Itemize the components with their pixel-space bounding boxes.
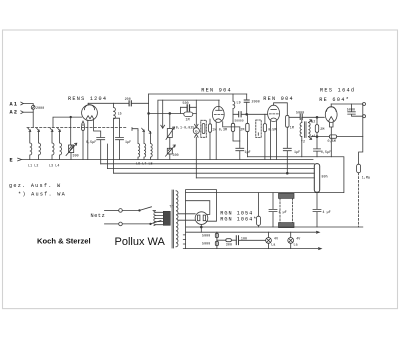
svg-text:1µF: 1µF <box>125 140 131 144</box>
svg-text:2M: 2M <box>240 128 244 132</box>
svg-text:5000: 5000 <box>296 110 304 114</box>
svg-text:2M: 2M <box>320 127 324 131</box>
svg-text:50000: 50000 <box>235 120 244 123</box>
svg-text:0,5M: 0,5M <box>328 139 336 143</box>
svg-text:5000: 5000 <box>347 107 355 111</box>
svg-text:gez. Ausf. W: gez. Ausf. W <box>9 183 61 189</box>
svg-text:4V: 4V <box>296 237 300 241</box>
svg-text:L6 L7 L8: L6 L7 L8 <box>136 162 153 166</box>
svg-text:4V: 4V <box>274 237 278 241</box>
svg-text:T2: T2 <box>301 140 305 144</box>
svg-text:L9: L9 <box>237 100 241 104</box>
svg-text:0,3M: 0,3M <box>219 128 227 132</box>
svg-text:1M: 1M <box>186 117 190 121</box>
svg-text:Koch & Sterzel: Koch & Sterzel <box>37 236 91 245</box>
svg-text:300: 300 <box>73 153 79 157</box>
svg-text:REN 904: REN 904 <box>263 96 294 102</box>
svg-text:L5: L5 <box>118 112 122 116</box>
svg-text:La: La <box>271 243 275 247</box>
svg-text:4 µF: 4 µF <box>279 210 287 214</box>
svg-text:A1: A1 <box>10 101 19 107</box>
svg-text:REN 904: REN 904 <box>201 88 232 94</box>
svg-text:300: 300 <box>173 153 179 157</box>
svg-text:0,5µF: 0,5µF <box>321 150 331 154</box>
svg-text:a1: a1 <box>312 134 316 138</box>
svg-text:500: 500 <box>183 101 189 105</box>
svg-text:1µF: 1µF <box>245 150 251 154</box>
svg-text:0,5µF: 0,5µF <box>86 140 96 144</box>
svg-text:4 µF: 4 µF <box>323 210 331 214</box>
svg-text:2000: 2000 <box>252 100 260 104</box>
svg-text:1,Ma: 1,Ma <box>362 175 370 179</box>
svg-text:RES 164d: RES 164d <box>320 88 355 94</box>
svg-text:RGN 1064*: RGN 1064* <box>220 217 257 223</box>
svg-text:1M: 1M <box>290 125 294 129</box>
svg-text:*) Ausf. WA: *) Ausf. WA <box>18 191 66 197</box>
svg-text:1k: 1k <box>212 128 216 132</box>
svg-text:RGN 1054: RGN 1054 <box>220 211 253 217</box>
svg-text:Tr: Tr <box>169 205 173 209</box>
svg-text:200: 200 <box>125 97 131 101</box>
svg-text:0,5M: 0,5M <box>268 127 276 131</box>
svg-text:1µF: 1µF <box>294 150 300 154</box>
svg-text:5000: 5000 <box>202 242 210 246</box>
svg-text:80h: 80h <box>322 175 328 179</box>
svg-text:L1 L2: L1 L2 <box>28 164 38 168</box>
svg-text:L3 L4: L3 L4 <box>49 164 59 168</box>
svg-text:a2: a2 <box>311 120 315 124</box>
svg-text:Netz: Netz <box>91 213 106 219</box>
svg-text:2000: 2000 <box>36 106 44 110</box>
svg-text:5000: 5000 <box>202 234 210 238</box>
svg-text:Pollux WA: Pollux WA <box>115 236 166 248</box>
svg-text:100: 100 <box>241 236 247 240</box>
svg-text:0,1-0,025: 0,1-0,025 <box>176 125 195 129</box>
svg-text:La: La <box>294 243 298 247</box>
svg-text:E: E <box>10 158 13 164</box>
svg-text:A2: A2 <box>10 110 19 116</box>
svg-text:RENS 1204: RENS 1204 <box>68 96 107 102</box>
svg-text:RE 604*: RE 604* <box>319 97 350 103</box>
svg-text:300: 300 <box>226 243 232 247</box>
